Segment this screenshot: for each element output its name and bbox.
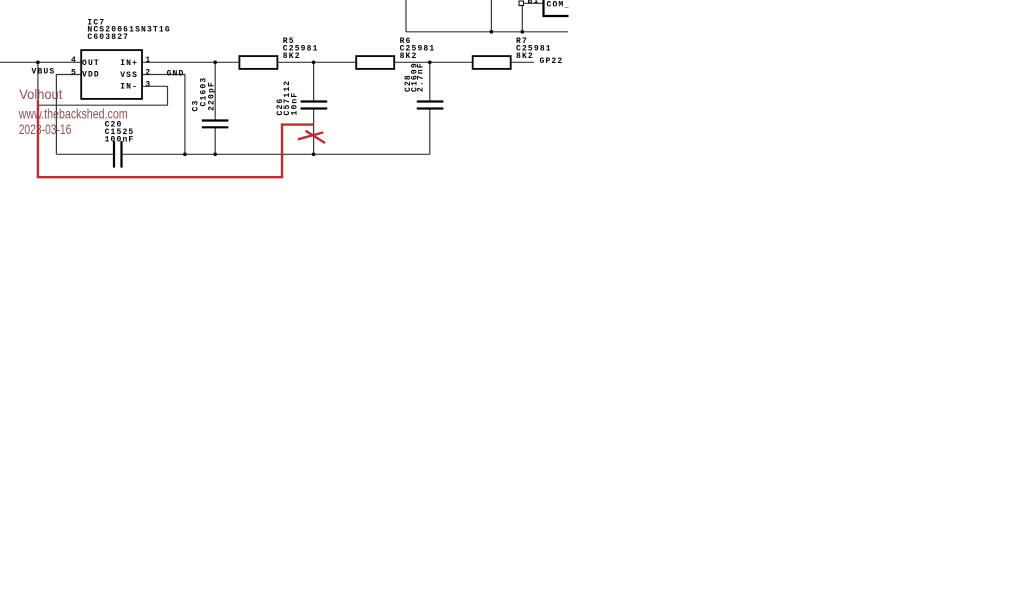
wire VBUS node drop [37,62,39,101]
svg-text:VSS: VSS [120,71,138,80]
wire B1 vertical [521,5,523,32]
wire VBUS input [0,61,81,63]
cut mark scissors stroke a [298,132,323,139]
wire top-mid vertical [490,0,492,32]
wire top-left vertical [405,0,407,32]
svg-text:8K2: 8K2 [400,52,418,61]
wire C26 bottom lead [313,109,315,154]
wire C28 top lead [429,62,431,101]
junction node VBUS [36,61,40,65]
svg-text:5: 5 [71,68,77,77]
wire B1 to COM box [523,2,543,4]
svg-text:4: 4 [71,56,77,65]
svg-text:GP22: GP22 [540,57,564,66]
svg-text:www.thebackshed.com: www.thebackshed.com [18,107,128,122]
wire R7 to GP22 [510,61,534,63]
svg-text:2023-03-16: 2023-03-16 [19,122,72,137]
svg-text:IN+: IN+ [120,59,138,68]
svg-text:8K2: 8K2 [516,52,534,61]
wire bottom rail left of C20 [56,153,113,155]
svg-text:100nF: 100nF [105,135,135,144]
wire IC7 pin1 to R5 [142,61,239,63]
svg-text:GND: GND [167,69,185,78]
svg-text:B1: B1 [528,0,540,6]
wire VDD [56,75,81,155]
connector COM box corner [544,0,569,16]
capacitor C20 plates [113,141,115,168]
svg-text:C603827: C603827 [87,33,129,42]
wire C28 bottom lead [429,109,431,154]
junction node GND rail [183,153,187,157]
junction node C3 top [213,61,217,65]
resistor R6 [356,56,394,69]
wire R6 to R7 [394,61,473,63]
capacitor C3 plates [202,119,229,121]
svg-text:10nF: 10nF [291,92,300,116]
resistor R7 [473,56,511,69]
junction node C3 bottom [213,153,217,157]
junction node C26 top [312,61,316,65]
pin square B1 [519,1,524,6]
op-amp IC7 body [81,50,142,99]
capacitor C28 plates [417,100,444,102]
svg-text:1: 1 [145,56,151,65]
wire C26 top lead [313,62,315,101]
wire IN- feedback [38,86,168,105]
svg-text:VDD: VDD [82,71,100,80]
wire red annotation route [38,100,314,177]
junction node C28 top [428,61,432,65]
svg-text:OUT: OUT [82,59,100,68]
svg-text:IN-: IN- [120,82,138,91]
resistor R5 [239,56,277,69]
svg-text:220pF: 220pF [208,81,217,111]
cut mark scissors stroke b [306,131,326,143]
wire VSS to GND [142,75,185,155]
svg-text:3: 3 [145,80,151,89]
junction node top rail a [490,30,494,34]
svg-text:2.7nF: 2.7nF [417,62,426,92]
junction node C26 bottom [312,153,316,157]
wire C3 top lead [214,62,216,120]
svg-text:VBUS: VBUS [32,67,56,76]
wire bottom rail right of C20 [123,153,430,155]
svg-text:8K2: 8K2 [283,52,301,61]
wire C3 bottom lead [214,128,216,155]
junction node top rail b [521,30,525,34]
svg-text:2: 2 [145,68,151,77]
wire R5 to R6 [277,61,356,63]
svg-text:Volhout: Volhout [19,87,62,102]
capacitor C26 plates [301,100,328,102]
wire top rail [406,31,568,33]
